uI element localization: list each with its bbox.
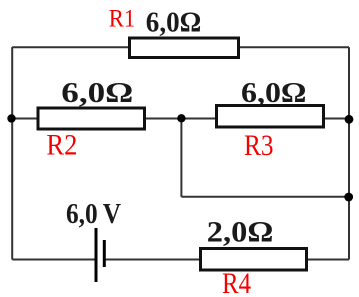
battery short plate (negative) xyxy=(103,240,106,267)
svg-text:R2: R2 xyxy=(46,129,77,162)
battery long plate (positive) xyxy=(95,228,98,282)
svg-text:6,0Ω: 6,0Ω xyxy=(146,8,202,39)
wire: middle horizontal (through R2 and R3) xyxy=(12,118,349,120)
junction node: left middle xyxy=(7,114,15,122)
resistor R3 (box) xyxy=(217,106,324,128)
resistor R4 (box) xyxy=(201,249,307,271)
wire: right vertical (outer loop) xyxy=(348,47,350,259)
resistor R1 (box) xyxy=(130,38,239,58)
wire: bottom right (battery short plate through R4 to right corner) xyxy=(104,259,349,261)
wire: top horizontal (through R1) xyxy=(12,46,349,48)
wire: bottom left (corner to battery long plate) xyxy=(12,259,96,261)
junction node: right middle xyxy=(345,115,354,124)
junction node: center middle xyxy=(177,114,185,122)
svg-text:R1: R1 xyxy=(109,6,136,33)
wire: left vertical (outer loop) xyxy=(11,47,13,260)
svg-text:6,0Ω: 6,0Ω xyxy=(241,78,307,109)
svg-text:6,0Ω: 6,0Ω xyxy=(61,78,133,109)
wire: center vertical branch xyxy=(180,119,182,197)
svg-text:2,0Ω: 2,0Ω xyxy=(207,217,273,249)
wire: branch horizontal to right vertical xyxy=(181,196,349,198)
resistor R2 (box) xyxy=(38,108,145,129)
svg-text:6,0 V: 6,0 V xyxy=(66,199,121,230)
junction node: right lower xyxy=(344,193,353,202)
svg-text:R3: R3 xyxy=(244,129,274,162)
svg-text:R4: R4 xyxy=(222,267,251,297)
